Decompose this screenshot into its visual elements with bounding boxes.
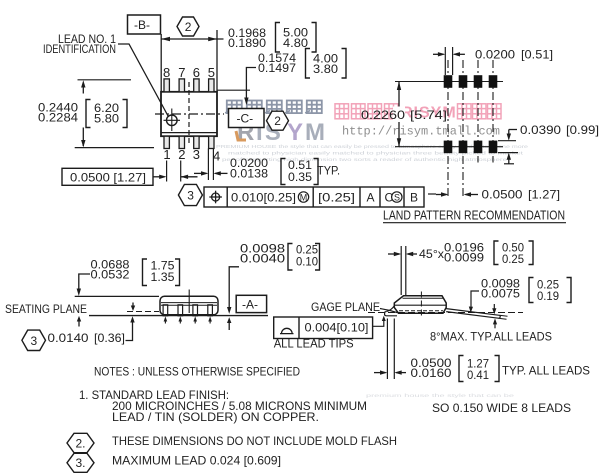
extension lines pin4 width (207, 149, 209, 181)
vertical centerline (188, 82, 190, 144)
svg-text:2: 2 (274, 114, 281, 128)
svg-text:0.0500: 0.0500 (482, 188, 523, 202)
svg-text:[5.74]: [5.74] (410, 108, 447, 122)
svg-text:-A-: -A- (242, 297, 258, 311)
svg-text:6: 6 (193, 65, 200, 80)
top extension line (75, 295, 159, 297)
svg-text:M: M (300, 192, 308, 202)
svg-text:8°MAX. TYP.ALL LEADS: 8°MAX. TYP.ALL LEADS (430, 329, 552, 343)
svg-text:0.0040: 0.0040 (240, 252, 285, 266)
svg-text:0.0099: 0.0099 (444, 251, 484, 265)
pin 1 identification circle (167, 115, 178, 126)
svg-text:5.80: 5.80 (94, 112, 119, 126)
svg-text:TYP. ALL LEADS: TYP. ALL LEADS (502, 364, 590, 378)
position symbol (212, 193, 220, 201)
svg-text:5: 5 (208, 65, 215, 80)
pad column centerlines (448, 60, 493, 197)
end view centerline (420, 292, 422, 318)
svg-text:0.19: 0.19 (537, 289, 559, 303)
pin 3 (194, 136, 199, 148)
extension line top pins + up arrow (78, 79, 132, 81)
svg-text:B: B (410, 191, 418, 205)
dim arrow 0.2440 down (82, 128, 84, 147)
svg-text:MAXIMUM LEAD 0.024 [0.609]: MAXIMUM LEAD 0.024 [0.609] (112, 454, 281, 468)
datum box -A- (236, 295, 266, 312)
boxed dim 0.0500 [1.27] pitch (62, 168, 153, 185)
pads bottom row (444, 141, 453, 154)
svg-text:0.0140: 0.0140 (48, 331, 89, 345)
dim 0.0500 pad pitch (436, 194, 447, 196)
hexagon note 2 (notes) (67, 433, 94, 452)
svg-text:0.0075: 0.0075 (481, 287, 520, 301)
svg-text:3: 3 (187, 189, 194, 203)
dim 0.2260 vertical (398, 82, 400, 147)
svg-text:2.: 2. (76, 436, 86, 450)
datum box -B- (128, 15, 161, 34)
svg-text:0.41: 0.41 (467, 368, 489, 382)
svg-text:2: 2 (185, 20, 192, 34)
svg-text:0.010[0.25]: 0.010[0.25] (231, 191, 296, 205)
pin 5 (209, 79, 214, 92)
pin 8 (164, 79, 169, 92)
svg-text:4.80: 4.80 (283, 36, 308, 50)
svg-text:45°x: 45°x (419, 247, 444, 261)
svg-text:2: 2 (178, 147, 185, 162)
end view right lead (446, 309, 499, 316)
svg-text:3: 3 (193, 147, 200, 162)
seating plane line (89, 315, 268, 317)
svg-text:LAND PATTERN RECOMMENDATION: LAND PATTERN RECOMMENDATION (383, 209, 565, 223)
dim 0.0200 pad width (444, 47, 446, 75)
horizontal centerline (datum C) (155, 113, 224, 115)
hexagon note 3 (notes) (67, 453, 94, 472)
hexagon note 3 (standoff) (22, 330, 46, 350)
svg-text:[0.36]: [0.36] (94, 331, 125, 345)
svg-text:3.: 3. (76, 456, 86, 470)
hexagon note 2 (top) (177, 17, 199, 36)
svg-text:0.0160: 0.0160 (411, 366, 452, 380)
svg-text:THESE DIMENSIONS DO NOT INCLUD: THESE DIMENSIONS DO NOT INCLUDE MOLD FLA… (112, 434, 397, 448)
svg-text:3: 3 (31, 334, 38, 348)
leader lead no.1 (118, 44, 169, 117)
svg-text:[0.51]: [0.51] (521, 48, 553, 62)
svg-text:A: A (367, 191, 375, 205)
svg-text:Y: Y (287, 119, 303, 146)
lead tip radius box (274, 317, 373, 339)
svg-text:0.0500 [1.27]: 0.0500 [1.27] (70, 170, 146, 184)
gage plane dashed line (368, 312, 523, 314)
leader from 0.1497 down to -C- (246, 68, 256, 99)
extension line left (body left edge up to -B-) (160, 34, 162, 92)
svg-text:SEATING PLANE: SEATING PLANE (5, 302, 87, 316)
svg-text:0.0390: 0.0390 (520, 123, 561, 137)
dim 0.0390 pad height (498, 140, 516, 142)
extension line right (body right edge up) (216, 30, 218, 92)
pads top row (444, 75, 453, 88)
svg-text:http://risym.tmall.com: http://risym.tmall.com (342, 125, 500, 139)
dimension line 0.1968 width (161, 38, 223, 40)
side view body (160, 296, 218, 315)
end view left lead foot (387, 306, 395, 312)
extension lines pins 1-2 centers (166, 161, 168, 182)
svg-text:-B-: -B- (134, 18, 150, 32)
pin 6 (194, 79, 199, 92)
pin 7 (179, 79, 184, 92)
svg-text:NOTES : UNLESS OTHERWISE SPECI: NOTES : UNLESS OTHERWISE SPECIFIED (94, 365, 300, 379)
standoff dashed line (127, 311, 159, 313)
svg-text:0.1497: 0.1497 (258, 61, 296, 75)
svg-text:0.004[0.10]: 0.004[0.10] (305, 321, 369, 335)
leader box to foot (373, 319, 384, 327)
side view centerline (188, 290, 190, 314)
svg-text:7: 7 (178, 65, 185, 80)
pin 2 (179, 136, 184, 148)
svg-text:8: 8 (163, 65, 170, 80)
watermark blue chars 规格示意图 (225, 101, 322, 114)
hexagon note 3 (178, 184, 202, 205)
extension line bottom pins (75, 147, 154, 149)
svg-text:0.25: 0.25 (502, 252, 524, 266)
pin 1 (164, 136, 169, 148)
svg-text:4: 4 (213, 149, 220, 164)
svg-text:0.10: 0.10 (296, 255, 318, 269)
extension line from body top right (217, 89, 250, 91)
chamfer extension lines (400, 246, 402, 295)
svg-text:0.1890: 0.1890 (228, 36, 266, 50)
svg-text:[0.99]: [0.99] (566, 123, 599, 137)
svg-text:0.0138: 0.0138 (230, 167, 268, 181)
svg-text:S: S (394, 193, 400, 203)
svg-text:LEAD / TIN (SOLDER) ON COPPER.: LEAD / TIN (SOLDER) ON COPPER. (112, 410, 319, 424)
svg-text:[1.27]: [1.27] (528, 188, 560, 202)
svg-text:0.0200: 0.0200 (475, 48, 515, 62)
watermark tiny rows (216, 144, 529, 398)
datum box -C- (229, 109, 265, 128)
svg-text:TYP.: TYP. (317, 164, 340, 178)
svg-text:0.0532: 0.0532 (91, 268, 130, 282)
frame (204, 187, 424, 207)
watermark pink chars 科比电子RISYM旗舰店 (335, 104, 501, 122)
package body (top view) (161, 92, 217, 136)
watermark big RISYM (237, 119, 325, 146)
dim foot length 0.0500/0.0160 (386, 319, 388, 380)
svg-text:M: M (305, 119, 325, 146)
pad row centerlines (395, 81, 503, 83)
svg-text:3.80: 3.80 (313, 62, 338, 76)
svg-text:1: 1 (163, 147, 170, 162)
svg-text:SO 0.150 WIDE 8 LEADS: SO 0.150 WIDE 8 LEADS (432, 401, 571, 415)
svg-text:0.2260: 0.2260 (361, 108, 405, 122)
hexagon note 2 (mid) (267, 111, 289, 130)
svg-text:0.2284: 0.2284 (38, 111, 78, 125)
end view body (394, 296, 446, 313)
lead tip arrows up (164, 316, 212, 321)
svg-text:1.35: 1.35 (151, 270, 175, 284)
pin 4 (209, 136, 214, 148)
svg-text:0.35: 0.35 (288, 170, 312, 184)
svg-text:[0.25]: [0.25] (318, 191, 355, 205)
svg-text:IDENTIFICATION: IDENTIFICATION (43, 42, 116, 56)
svg-text:-C-: -C- (237, 112, 254, 126)
svg-text:premium house the style that c: premium house the style that can be (366, 393, 515, 398)
svg-text:ALL LEAD TIPS: ALL LEAD TIPS (274, 336, 354, 350)
side view leads (163, 305, 212, 316)
